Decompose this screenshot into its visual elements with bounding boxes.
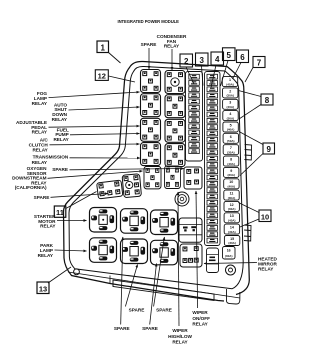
label OXYGEN SENSOR DOWNSTREAM RELAY (CALIFORNIA) <box>12 166 142 190</box>
callout 7 <box>245 57 265 83</box>
label SPARE (bottom upper-right) <box>154 237 172 313</box>
svg-text:11: 11 <box>56 208 64 217</box>
svg-text:RELAY: RELAY <box>38 253 54 258</box>
label TRANSMISSION RELAY <box>32 155 140 165</box>
label ADJUSTABLE PEDAL RELAY <box>16 120 139 135</box>
fuse cell block (25A) <box>207 248 219 273</box>
svg-text:(40A): (40A) <box>227 105 235 109</box>
svg-text:(30A): (30A) <box>228 196 236 200</box>
relay grid R row1 col2 (condenser fan relay) <box>165 71 185 94</box>
cartridge fuse 9 (30A) <box>224 167 239 177</box>
right edge connector tab upper <box>244 145 251 161</box>
callout 5 <box>221 48 236 86</box>
svg-text:(30A): (30A) <box>228 241 236 245</box>
large relay R2b <box>121 239 148 264</box>
callout 2 <box>180 54 194 84</box>
top label CONDENSER FAN RELAY <box>157 34 187 70</box>
relay grid row5 col2 <box>165 166 181 188</box>
svg-text:5: 5 <box>226 51 231 60</box>
large relay R1a (starter motor relay) <box>90 208 117 233</box>
svg-text:RELAY: RELAY <box>192 322 208 327</box>
label SPARE (bottom lower-left) <box>114 237 130 331</box>
svg-text:8: 8 <box>265 96 270 105</box>
svg-text:(50A): (50A) <box>227 139 235 143</box>
svg-text:SPARE: SPARE <box>142 326 158 331</box>
relay grid row3 col1 (adjustable pedal / fuel pump relay) <box>141 118 161 141</box>
round component (stud) <box>175 192 189 206</box>
svg-text:RELAY: RELAY <box>164 44 180 49</box>
svg-text:7: 7 <box>257 59 262 68</box>
label SPARE (bottom lower-right) <box>142 264 158 332</box>
svg-text:(30A): (30A) <box>228 207 236 211</box>
svg-text:ON/OFF: ON/OFF <box>192 316 210 321</box>
callout 6 <box>233 50 249 79</box>
label FUEL PUMP RELAY <box>53 127 139 142</box>
relay grid R row1 col1 (fog lamp relay) <box>141 70 161 93</box>
callout 12 <box>95 70 135 82</box>
cartridge fuse 11 (30A) <box>224 190 239 200</box>
callout 3 <box>196 53 209 86</box>
svg-text:2: 2 <box>184 57 189 66</box>
label SPARE (bottom upper-left) <box>125 265 144 313</box>
cartridge fuse 5 (40A) <box>223 122 238 132</box>
relay grid row5 col1 (oxygen sensor downstream relay) <box>144 166 161 188</box>
svg-text:SPARE: SPARE <box>129 308 145 313</box>
cartridge fuse 16 (heated mirror) <box>223 247 236 260</box>
cartridge fuse 1 (40A) <box>222 77 237 87</box>
bottom pin block <box>180 244 202 267</box>
svg-text:SPARE: SPARE <box>34 195 50 200</box>
cartridge fuse 7 (30A) <box>223 145 238 155</box>
fuse container B <box>205 72 221 246</box>
svg-text:RELAY: RELAY <box>258 267 274 272</box>
large relay R2a (park lamp relay) <box>90 238 117 262</box>
spare relay (wide block) <box>97 180 123 199</box>
svg-text:RELAY: RELAY <box>172 340 188 345</box>
label A/C CLUTCH RELAY <box>29 138 140 153</box>
callout 13 <box>37 267 71 294</box>
bottom slot <box>113 280 214 301</box>
cartridge fuse 6 (50A) <box>223 133 238 143</box>
svg-text:13: 13 <box>39 284 47 293</box>
container B mini fuse cells <box>207 74 218 243</box>
label SPARE (left) <box>52 167 184 172</box>
mount hole bottom-left <box>74 269 80 275</box>
svg-text:RELAY: RELAY <box>53 137 69 142</box>
relay block with circular pin <box>122 174 141 198</box>
svg-text:WIPER: WIPER <box>192 310 208 315</box>
cartridge fuse 3 (40A) <box>223 99 238 109</box>
callout 4 <box>211 52 224 88</box>
svg-text:RELAY: RELAY <box>32 130 48 135</box>
mount hole bottom-right <box>226 265 236 275</box>
svg-text:(30A): (30A) <box>226 94 234 98</box>
label FOG LAMP RELAY <box>32 91 140 106</box>
callout 10 <box>238 203 271 228</box>
svg-text:RELAY: RELAY <box>32 160 48 165</box>
svg-text:SPARE: SPARE <box>156 308 172 313</box>
cartridge fuse 4 (30A) <box>223 111 238 121</box>
svg-text:RELAY: RELAY <box>32 101 48 106</box>
wiper relay block <box>179 218 202 242</box>
svg-text:WIPER: WIPER <box>172 328 188 333</box>
svg-text:RELAY: RELAY <box>40 224 56 229</box>
relay grid row2 col2 <box>165 95 185 118</box>
cartridge fuse 10 (40A) <box>224 179 239 189</box>
svg-text:HIGH/LOW: HIGH/LOW <box>168 334 192 339</box>
label STARTER MOTOR RELAY <box>34 214 87 229</box>
label AUTO SHUT DOWN RELAY <box>52 102 140 121</box>
svg-text:1: 1 <box>100 43 105 52</box>
callout 1 <box>97 41 121 63</box>
relay grid row4 col1 (transmission relay) <box>141 143 161 166</box>
relay grid row3 col2 <box>165 119 185 142</box>
relay grid row4 col2 <box>165 144 185 167</box>
svg-text:(30A): (30A) <box>227 116 235 120</box>
svg-text:SPARE: SPARE <box>141 42 157 47</box>
bottom right foot tab <box>227 289 240 304</box>
svg-text:(40A): (40A) <box>227 162 235 166</box>
svg-text:(30A): (30A) <box>227 173 235 177</box>
svg-text:4: 4 <box>215 55 220 64</box>
relay grid row2 col1 (auto shut down relay) <box>141 94 161 117</box>
right edge connector tab lower <box>244 225 251 241</box>
svg-text:INTEGRATED POWER MODULE: INTEGRATED POWER MODULE <box>118 19 180 24</box>
pin box below container A <box>184 167 202 189</box>
svg-text:3: 3 <box>199 56 204 65</box>
label SPARE (left lower) <box>34 194 108 200</box>
right label HEATED MIRROR RELAY <box>204 257 278 272</box>
svg-text:12: 12 <box>98 72 106 81</box>
svg-text:(CALIFORNIA): (CALIFORNIA) <box>15 185 47 190</box>
label WIPER ON/OFF RELAY <box>192 191 210 327</box>
svg-text:SPARE: SPARE <box>52 167 68 172</box>
svg-text:(30A): (30A) <box>228 230 236 234</box>
svg-text:10: 10 <box>261 212 269 221</box>
cartridge fuse 12 (30A) <box>224 201 239 211</box>
slot left step <box>110 276 113 287</box>
bottom side band mid line <box>68 272 240 298</box>
cartridge fuse 8 (40A) <box>223 156 238 166</box>
label PARK LAMP RELAY <box>38 243 87 258</box>
large relay R1b <box>121 209 148 234</box>
svg-text:(30A): (30A) <box>227 150 235 154</box>
svg-text:6: 6 <box>240 53 245 62</box>
housing inner rim <box>69 66 243 288</box>
cartridge fuse 15 (30A) <box>224 236 239 246</box>
label WIPER HIGH/LOW RELAY <box>168 192 192 345</box>
svg-text:9: 9 <box>266 145 271 154</box>
cartridge fuse 2 (30A) <box>223 88 238 98</box>
cartridge fuse 13 (40A) <box>224 213 239 223</box>
large relay R1c <box>151 210 178 235</box>
callout 11 <box>54 192 96 218</box>
cartridge fuse 14 (30A) <box>224 224 239 234</box>
svg-text:16: 16 <box>227 249 231 253</box>
svg-text:(30A): (30A) <box>225 254 233 258</box>
top label SPARE <box>141 42 157 69</box>
svg-text:(40A): (40A) <box>228 184 236 188</box>
svg-text:SPARE: SPARE <box>114 326 130 331</box>
svg-text:RELAY: RELAY <box>52 117 68 122</box>
svg-text:(40A): (40A) <box>228 219 236 223</box>
large relay R2c <box>151 240 178 264</box>
callout 9 <box>239 132 275 176</box>
svg-text:RELAY: RELAY <box>32 147 48 152</box>
svg-text:(40A): (40A) <box>226 82 234 86</box>
svg-text:(40A): (40A) <box>227 128 235 132</box>
fuse container A <box>186 72 203 162</box>
callout 8 <box>239 91 274 120</box>
housing outer rim <box>64 61 250 301</box>
container A mini fuse cells <box>189 74 200 153</box>
